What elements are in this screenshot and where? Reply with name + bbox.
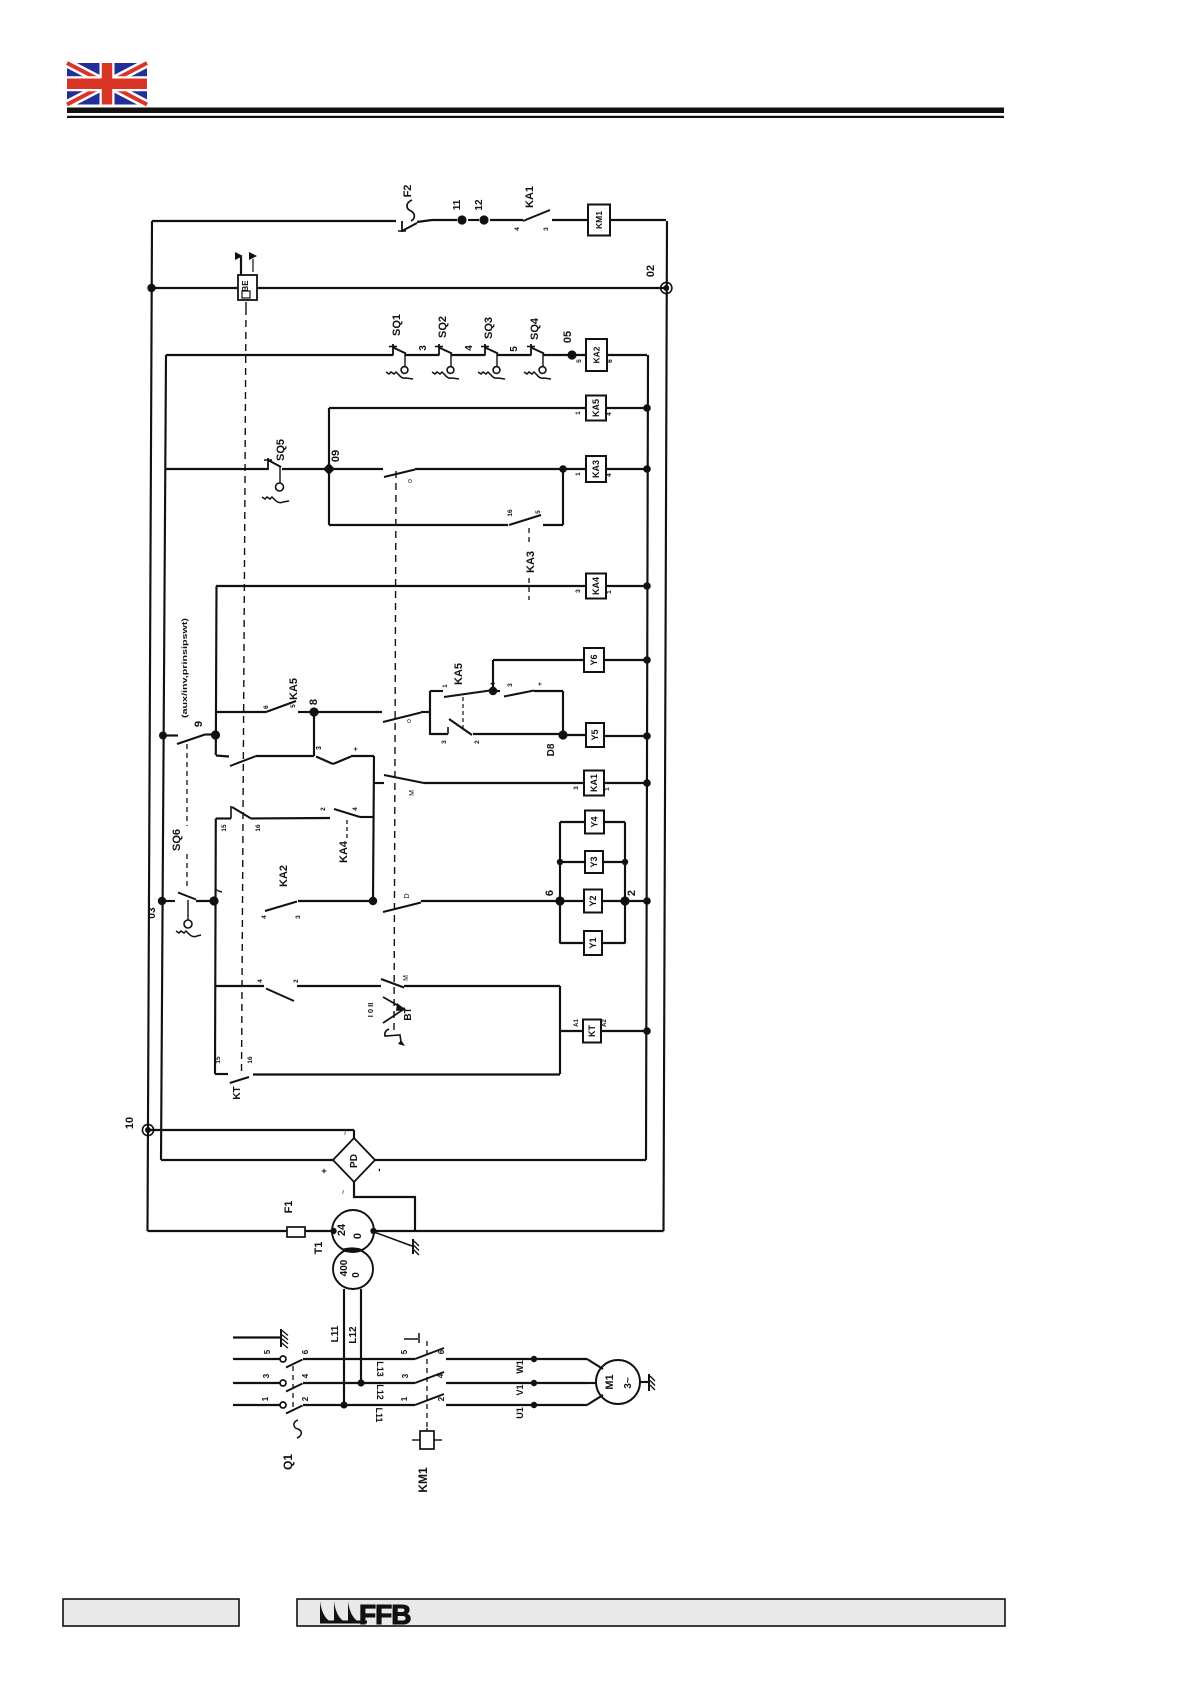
svg-text:SQ5: SQ5 [275, 439, 287, 461]
svg-text:1: 1 [575, 472, 582, 476]
svg-text:V1: V1 [515, 1384, 525, 1395]
svg-text:8: 8 [308, 699, 320, 705]
svg-text:KA5: KA5 [288, 678, 300, 700]
svg-text:KM1: KM1 [416, 1467, 430, 1493]
svg-text:+: + [537, 682, 544, 686]
svg-text:12: 12 [474, 199, 485, 211]
svg-text:KA3: KA3 [591, 460, 601, 478]
svg-text:M: M [403, 975, 410, 981]
svg-text:16: 16 [507, 509, 514, 517]
svg-text:4: 4 [606, 473, 613, 477]
svg-text:o: o [407, 479, 414, 483]
svg-text:2: 2 [437, 1396, 446, 1401]
svg-text:A2: A2 [602, 1019, 608, 1027]
svg-text:L12: L12 [348, 1326, 359, 1344]
svg-text:L11: L11 [374, 1407, 384, 1422]
svg-text:BT: BT [403, 1007, 414, 1020]
svg-text:16: 16 [255, 824, 262, 832]
svg-text:4: 4 [257, 979, 264, 983]
svg-text:1: 1 [400, 1396, 409, 1401]
svg-text:KA4: KA4 [338, 840, 350, 863]
svg-text:BE: BE [241, 280, 250, 292]
svg-text:L12: L12 [375, 1384, 385, 1400]
svg-text:T1: T1 [313, 1242, 325, 1255]
svg-text:16: 16 [247, 1056, 254, 1064]
svg-text:6: 6 [607, 359, 614, 363]
svg-text:4: 4 [490, 682, 497, 686]
svg-text:3: 3 [418, 345, 429, 351]
svg-text:Y6: Y6 [589, 654, 599, 665]
svg-text:KA2: KA2 [278, 865, 290, 887]
svg-text:15: 15 [215, 1056, 222, 1064]
svg-text:9: 9 [193, 721, 205, 727]
svg-text:3: 3 [401, 1373, 410, 1378]
svg-text:PD: PD [349, 1154, 360, 1168]
svg-text:0: 0 [352, 1233, 364, 1239]
svg-text:3: 3 [441, 740, 448, 744]
svg-text:5: 5 [576, 359, 583, 363]
svg-text:02: 02 [645, 265, 657, 277]
svg-text:Q1: Q1 [281, 1454, 295, 1470]
svg-text:M: M [409, 790, 416, 796]
svg-text:+: + [353, 747, 360, 751]
svg-text:4: 4 [464, 345, 475, 351]
svg-text:3: 3 [507, 683, 514, 687]
svg-text:2: 2 [293, 979, 300, 983]
svg-text:24: 24 [336, 1223, 348, 1236]
svg-text:KT: KT [232, 1086, 243, 1099]
svg-text:SQ4: SQ4 [529, 317, 541, 340]
svg-text:6: 6 [301, 1349, 310, 1354]
svg-text:3: 3 [575, 589, 582, 593]
svg-text:Y1: Y1 [588, 937, 598, 948]
svg-text:6: 6 [544, 890, 556, 896]
svg-text:5: 5 [263, 1349, 272, 1354]
svg-text:FFB: FFB [359, 1599, 410, 1630]
svg-text:A1: A1 [574, 1019, 580, 1027]
svg-text:3: 3 [573, 786, 580, 790]
svg-text:KA2: KA2 [592, 346, 602, 363]
svg-text:1: 1 [604, 787, 611, 791]
svg-text:D: D [404, 893, 411, 898]
svg-text:7: 7 [213, 888, 225, 894]
svg-text:KA3: KA3 [525, 551, 537, 573]
svg-text:M1: M1 [604, 1374, 616, 1389]
svg-text:1: 1 [261, 1396, 270, 1401]
svg-text:4: 4 [352, 807, 359, 811]
svg-text:6: 6 [437, 1349, 446, 1354]
svg-text:L13: L13 [375, 1361, 385, 1377]
svg-text:5: 5 [509, 346, 520, 352]
svg-text:-: - [374, 1168, 385, 1171]
svg-text:3: 3 [295, 915, 302, 919]
svg-text:(aux/inv,prinsipswt): (aux/inv,prinsipswt) [180, 617, 189, 718]
svg-text:2: 2 [626, 890, 638, 896]
svg-text:3: 3 [316, 746, 323, 750]
svg-text:SQ3: SQ3 [483, 317, 495, 339]
svg-text:Y3: Y3 [589, 856, 599, 867]
svg-text:5: 5 [400, 1349, 409, 1354]
svg-text:4: 4 [606, 412, 613, 416]
svg-text:SQ6: SQ6 [171, 829, 183, 851]
svg-text:400: 400 [339, 1259, 350, 1276]
svg-text:1: 1 [442, 684, 449, 688]
svg-text:05: 05 [562, 331, 574, 343]
svg-text:Y2: Y2 [588, 895, 598, 906]
svg-text:2: 2 [301, 1396, 310, 1401]
svg-text:10: 10 [124, 1117, 136, 1129]
svg-text:5: 5 [290, 704, 297, 708]
svg-text:4: 4 [514, 227, 521, 231]
svg-text:KA1: KA1 [589, 774, 599, 792]
svg-text:4: 4 [436, 1373, 445, 1378]
svg-text:3: 3 [262, 1373, 271, 1378]
svg-text:KM1: KM1 [594, 211, 604, 229]
svg-text:F2: F2 [402, 185, 414, 198]
svg-text:SQ1: SQ1 [391, 314, 403, 336]
svg-text:W1: W1 [515, 1360, 525, 1374]
svg-text:1: 1 [606, 590, 613, 594]
svg-text:F1: F1 [283, 1201, 295, 1214]
svg-text:0: 0 [351, 1272, 362, 1278]
svg-text:3~: 3~ [623, 1377, 634, 1389]
svg-text:I 0 II: I 0 II [366, 1003, 375, 1018]
svg-text:U1: U1 [515, 1407, 525, 1419]
svg-text:3: 3 [543, 227, 550, 231]
svg-text:KT: KT [587, 1025, 597, 1037]
svg-text:KA4: KA4 [591, 577, 601, 595]
svg-text:6: 6 [263, 705, 270, 709]
svg-text:5: 5 [535, 510, 542, 514]
svg-text:1: 1 [575, 411, 582, 415]
svg-text:2: 2 [474, 740, 481, 744]
svg-text:11: 11 [452, 199, 463, 210]
svg-text:2: 2 [320, 807, 327, 811]
svg-text:4: 4 [261, 915, 268, 919]
svg-text:SQ2: SQ2 [437, 316, 449, 338]
svg-text:D8: D8 [546, 743, 557, 756]
svg-text:15: 15 [221, 824, 228, 832]
svg-text:L11: L11 [330, 1325, 341, 1342]
svg-text:03: 03 [147, 907, 158, 919]
svg-text:Y5: Y5 [590, 729, 600, 740]
svg-text:KA1: KA1 [524, 186, 536, 208]
svg-text:4: 4 [301, 1373, 310, 1378]
svg-text:KA5: KA5 [591, 399, 601, 417]
svg-text:KA5: KA5 [453, 663, 465, 685]
svg-text:~: ~ [341, 1130, 350, 1135]
svg-text:Y4: Y4 [590, 816, 600, 827]
svg-text:+: + [319, 1168, 329, 1173]
svg-text:09: 09 [330, 450, 342, 462]
svg-text:~: ~ [339, 1189, 348, 1194]
svg-text:o: o [406, 719, 413, 723]
